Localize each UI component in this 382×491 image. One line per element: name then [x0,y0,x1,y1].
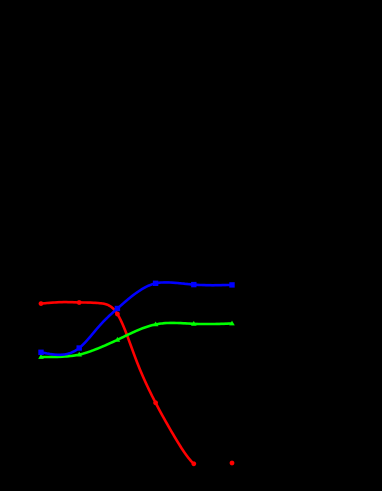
blue series curve [41,282,232,354]
red series markers (filled circles) [39,300,235,466]
blue series markers (filled squares) [38,281,234,355]
red series curve (clipped at plot bottom edge) [41,302,194,464]
green series markers (filled triangles) [38,321,235,359]
green series curve [41,323,232,357]
